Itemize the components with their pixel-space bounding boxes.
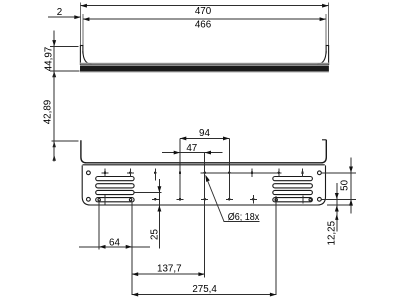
dimension 25 [158,179,160,249]
47 / 137,7 shared extension line [204,153,206,278]
dimension 94 [180,137,229,139]
left flange (tab) outer line [79,46,81,66]
hole row2 x204.7 [203,198,206,201]
94 extension lines [179,138,181,199]
dimension 12,25 [336,183,338,232]
right flange top cap [326,45,330,47]
dimension 44,97 [50,45,79,47]
left vent slot 2 [96,184,134,188]
hole row2 x155.3 [154,198,157,201]
hole row1 x155.3 [154,172,157,175]
slot4 end hole right-right [309,199,311,201]
extension line right outer [327,3,329,46]
dimension 466 [83,18,326,20]
dimension 47 [162,152,222,154]
svg-text:42,89: 42,89 [43,100,54,125]
right vent slot 4 [273,198,313,202]
inner corner arc left [83,51,92,64]
hole row1 x302.5 [301,172,304,175]
hole row1 x278.8 [278,172,281,175]
svg-text:64: 64 [109,237,120,248]
right vent slot 3 [273,190,313,194]
left vent slot 4 [96,198,134,202]
svg-text:12,25: 12,25 [326,220,337,245]
slot4 end hole left-left [98,199,100,201]
hole row2 x229.3 [228,198,231,201]
64 / 275,4 extension line [98,202,100,250]
svg-text:94: 94 [199,128,210,139]
dimension 2 (flange thickness) [48,16,81,18]
svg-text:137,7: 137,7 [157,264,182,275]
left flange inner line [82,46,84,54]
svg-text:44,97: 44,97 [44,47,55,72]
hole row1 x252 [251,172,254,175]
25 extension line from slot3 centerline [134,192,161,194]
dimension 50 [350,158,352,214]
svg-text:470: 470 [195,6,212,17]
dimension 137,7 [132,273,205,275]
base plate edge-on (thick bar) [80,63,329,64]
left end wall edge + bend line 1 [81,140,326,163]
svg-text:466: 466 [195,20,212,31]
left flange top cap [80,45,84,47]
svg-text:25: 25 [150,229,161,240]
right end top cap [322,139,326,141]
row1 small holes with center marks [102,169,304,204]
hole row2 x253.3 [252,198,255,201]
corner hole bottom-right [318,197,322,201]
left vent slot 1 [96,177,134,181]
275,4 right extension line [275,196,277,295]
extension line left outer [80,3,82,46]
right side extension lines [322,172,357,174]
leader Ø6; 18x [206,176,224,221]
extension line left inner [82,14,84,46]
slot4 end hole left-right [129,199,131,201]
dimension 42,89 [52,140,79,142]
corner hole bottom-left [87,197,91,201]
slot4 end hole right-left [275,199,277,201]
64 / 137,7 extension line [131,202,133,295]
dimension 275,4 [132,294,276,296]
right vent slot 1 [273,177,313,181]
hole row2 x180 [179,198,182,201]
right flange inner line [325,46,327,54]
extension line right inner [325,14,327,46]
svg-text:47: 47 [186,143,197,154]
svg-text:50: 50 [340,179,351,190]
dimension 470 [81,5,329,7]
svg-text:2: 2 [57,7,62,18]
plate outline [82,165,325,205]
left vent slot 3 [96,190,134,194]
row1 centerline [201,172,282,174]
svg-text:Ø6; 18x: Ø6; 18x [228,212,260,223]
slot4 crossing tick [104,195,106,204]
right slot4 crossing tick [302,196,304,204]
svg-text:275,4: 275,4 [192,284,217,295]
right vent slot 2 [273,184,313,188]
bend line 2 [83,164,325,166]
hole row1 x105 [104,172,107,175]
right flange outer line [328,46,330,66]
hole row1 x204.7 (leader target) [203,172,206,175]
corner hole top-right [318,171,322,175]
hole row1 x130.3 [129,172,132,175]
dimension 64 [79,246,150,248]
corner hole top-left [87,171,91,175]
inner corner arc right [318,51,327,64]
hole row1 x229.3 [228,172,231,175]
hole row1 x180 [179,172,182,175]
